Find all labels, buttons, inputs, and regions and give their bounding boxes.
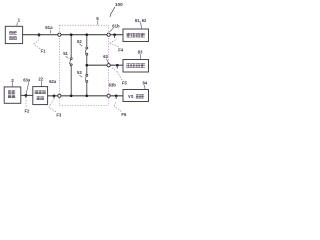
text 装置 (box2 line2)	[8, 95, 15, 98]
svg-text:F2: F2	[25, 108, 31, 113]
junction fuse F3 node	[53, 94, 56, 97]
dashed leader F2 seg1	[25, 99, 27, 107]
svg-text:61b: 61b	[112, 23, 120, 28]
svg-text:F6: F6	[121, 112, 127, 117]
svg-text:63b: 63b	[109, 83, 117, 88]
switch 51 blade	[70, 60, 71, 64]
text 蓄电池 (box22 line1)	[35, 90, 46, 94]
switch 51 lower contact	[70, 64, 72, 66]
switch 53 blade	[85, 76, 86, 80]
switch 53 upper contact	[86, 74, 88, 76]
text 重要负载	[126, 63, 144, 67]
dashed leader F5 seg2	[112, 68, 118, 72]
connector 61a	[58, 33, 61, 36]
svg-text:100: 100	[115, 2, 123, 7]
leader for 5	[97, 21, 99, 25]
wire 62/64 bottom bus	[48, 95, 123, 97]
dashed leader F5 seg1	[118, 72, 122, 80]
leader for 53	[79, 75, 82, 77]
wire switch 51 upper	[70, 35, 72, 58]
leader for 2	[11, 82, 13, 87]
connector 61b	[107, 33, 110, 36]
leader for 100	[110, 7, 115, 15]
box 2 power storage device	[4, 87, 21, 103]
dashed leader F3 seg1	[49, 108, 56, 112]
box important load 83	[123, 60, 149, 73]
switch 52 lower contact	[86, 53, 88, 55]
svg-text:63: 63	[103, 54, 108, 59]
wire switch 53 lower	[86, 83, 88, 96]
dashed leader F3 seg2	[49, 100, 54, 108]
junction top bus / switch 52	[85, 33, 88, 36]
wire switch 52 upper	[86, 35, 88, 47]
fuse F5 stub	[116, 65, 118, 68]
fuse F4 stub	[114, 35, 116, 38]
dashed harness boundary box 5 (bottom edge)	[59, 105, 108, 107]
connector 62a	[58, 94, 61, 97]
junction top bus / switch 51	[70, 33, 73, 36]
switch 53 lower contact	[86, 80, 88, 82]
text 一般负载	[126, 33, 144, 37]
leader for 61a	[49, 30, 52, 33]
wire switch 52 to 53	[86, 55, 88, 74]
svg-text:61a: 61a	[45, 25, 53, 30]
leader for 51	[66, 56, 69, 58]
text 蓄电 (box1 line1)	[9, 31, 16, 35]
fuse F2 stub	[25, 95, 27, 98]
leader for 83	[139, 54, 142, 59]
svg-text:63a: 63a	[23, 78, 31, 83]
leader for 1	[16, 22, 19, 26]
dashed harness boundary box 5 (left edge)	[58, 25, 60, 105]
box VS load 84	[123, 90, 149, 102]
leader for 61 62	[141, 22, 142, 28]
svg-text:22: 22	[38, 76, 43, 81]
junction fuse F6 node	[115, 94, 118, 97]
leader for 61b	[110, 28, 114, 32]
junction 63a node	[25, 94, 28, 97]
svg-text:F5: F5	[122, 80, 128, 85]
leader for 63a	[26, 82, 29, 94]
svg-text:5: 5	[96, 16, 99, 21]
svg-text:2: 2	[11, 78, 14, 83]
svg-text:F4: F4	[118, 48, 124, 53]
dashed leader F4 seg1	[110, 43, 119, 47]
junction bottom bus / switch 53	[85, 94, 88, 97]
text 单元 (box22 line2)	[37, 96, 44, 100]
svg-text:62a: 62a	[49, 79, 57, 84]
dashed leader F1 seg1	[34, 44, 41, 49]
svg-text:84: 84	[143, 81, 148, 86]
svg-text:F1: F1	[41, 49, 47, 54]
leader for 52	[79, 44, 82, 47]
switch 52 blade	[85, 49, 86, 53]
junction middle bus / switch column	[85, 64, 88, 67]
leader for 22	[40, 81, 42, 87]
switch 52 upper contact	[86, 47, 88, 49]
text 负载 (VS box)	[136, 94, 144, 98]
junction fuse F5 node	[116, 64, 119, 67]
connector 63b	[107, 94, 110, 97]
wire from battery 2 to unit 22	[21, 94, 33, 96]
svg-text:51: 51	[63, 51, 68, 56]
svg-text:52: 52	[77, 39, 82, 44]
svg-text:83: 83	[138, 49, 143, 54]
junction fuse F4 node	[113, 33, 116, 36]
dashed leader F6 seg1	[114, 106, 121, 111]
dashed harness boundary box 5 (top edge)	[59, 24, 108, 26]
text 蓄电 (box2 line1)	[8, 90, 15, 93]
leader for 63	[106, 59, 108, 64]
fuse F1 stub	[38, 35, 40, 37]
junction fuse F1 node	[38, 33, 41, 36]
switch 51 upper contact	[70, 58, 72, 60]
svg-text:61, 62: 61, 62	[135, 18, 147, 23]
text 装置 (box1 line2)	[9, 36, 16, 40]
box general load 81,82	[123, 29, 149, 42]
box 1 power storage device	[5, 26, 22, 43]
svg-text:1: 1	[18, 18, 21, 23]
arrowhead of 100 leader	[110, 15, 112, 17]
wire 63 middle bus	[87, 64, 123, 66]
fuse F3 stub	[53, 96, 55, 99]
svg-text:53: 53	[77, 70, 82, 75]
svg-text:F3: F3	[56, 112, 62, 117]
dashed leader F1 seg2	[34, 39, 40, 44]
wire switch 51 lower	[70, 66, 72, 96]
box 22 battery unit	[33, 87, 48, 105]
dashed leader F6 seg2	[114, 101, 116, 106]
dashed leader F4 seg2	[110, 39, 117, 44]
fuse F6 stub	[115, 96, 117, 99]
leader for 84	[144, 85, 146, 89]
wire 61 top bus	[23, 34, 123, 36]
dashed harness boundary box 5 (right edge)	[108, 25, 110, 105]
svg-text:VS: VS	[128, 94, 134, 99]
connector 63 on harness edge	[107, 64, 110, 67]
junction bottom bus / switch 51	[70, 94, 73, 97]
